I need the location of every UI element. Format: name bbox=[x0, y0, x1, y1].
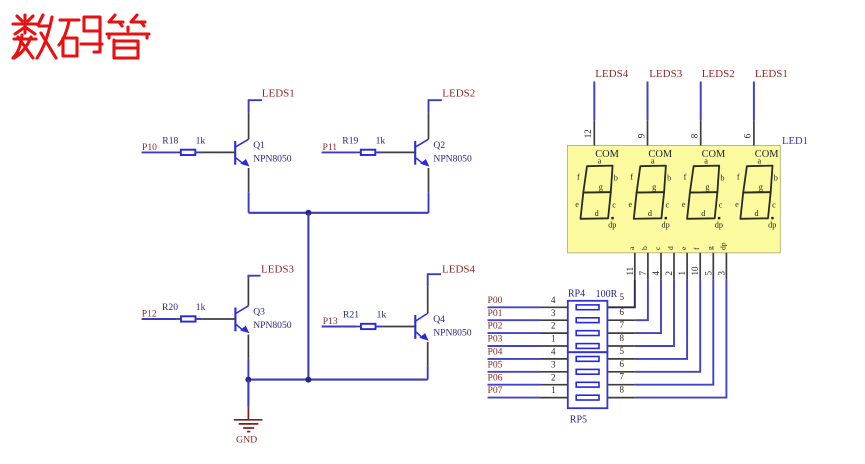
svg-text:e: e bbox=[735, 200, 739, 209]
Q4 emitter pin bbox=[427, 342, 429, 366]
svg-text:2: 2 bbox=[551, 372, 556, 382]
display LED1 body bbox=[568, 146, 781, 253]
wire emitter bus upper bbox=[249, 212, 429, 214]
svg-text:LEDS3: LEDS3 bbox=[649, 68, 683, 80]
svg-text:f: f bbox=[737, 173, 740, 182]
svg-text:1k: 1k bbox=[376, 135, 386, 146]
network resistor element row 4 bbox=[576, 344, 599, 349]
Q1 collector pin bbox=[248, 112, 250, 139]
digit 3 decimal point bbox=[718, 217, 720, 219]
svg-text:8: 8 bbox=[690, 133, 700, 138]
svg-text:LEDS4: LEDS4 bbox=[442, 263, 476, 275]
svg-text:a: a bbox=[651, 157, 655, 166]
svg-text:R20: R20 bbox=[162, 302, 178, 313]
Q4 collector pin bbox=[427, 286, 429, 313]
network resistor element row 8 bbox=[576, 395, 599, 400]
wire segment dp to network row 8 bbox=[635, 280, 727, 398]
title 数码管 bbox=[13, 15, 149, 58]
svg-text:c: c bbox=[666, 200, 670, 209]
svg-text:GND: GND bbox=[236, 435, 257, 446]
network resistor element row 2 bbox=[576, 318, 599, 323]
svg-text:P05: P05 bbox=[488, 359, 503, 370]
junction upper bus bbox=[305, 210, 311, 216]
wire to ground bbox=[247, 380, 249, 407]
wire R20 to base bbox=[196, 318, 203, 320]
transistor Q2 bbox=[415, 139, 429, 166]
svg-text:LEDS2: LEDS2 bbox=[442, 88, 475, 100]
network resistor element row 7 bbox=[576, 382, 599, 387]
junction lower bus mid bbox=[305, 377, 311, 383]
svg-text:5: 5 bbox=[620, 346, 625, 356]
wire segment f to network row 6 bbox=[635, 280, 700, 372]
svg-text:b: b bbox=[614, 173, 618, 182]
digit 2 decimal point bbox=[665, 217, 667, 219]
svg-text:R21: R21 bbox=[343, 310, 359, 321]
svg-text:LEDS3: LEDS3 bbox=[261, 263, 295, 275]
svg-text:e: e bbox=[629, 200, 633, 209]
svg-text:8: 8 bbox=[620, 333, 625, 343]
wire segment c to network row 3 bbox=[635, 280, 661, 333]
svg-text:dp: dp bbox=[608, 221, 616, 230]
display pin 11 stub bbox=[634, 253, 636, 280]
wire segment d to network row 4 bbox=[635, 280, 674, 346]
display pin 10 stub bbox=[699, 253, 701, 280]
Q3 collector wire to LEDS bbox=[248, 276, 260, 279]
svg-text:P11: P11 bbox=[323, 142, 338, 153]
svg-text:d: d bbox=[666, 246, 675, 250]
wire LEDS3 to COM bbox=[647, 82, 649, 121]
display pin 7 stub bbox=[647, 253, 649, 280]
wire P05 bbox=[488, 371, 541, 373]
Q2 emitter pin bbox=[428, 168, 430, 192]
svg-text:a: a bbox=[598, 157, 602, 166]
network resistor element row 6 bbox=[576, 369, 599, 374]
svg-text:P04: P04 bbox=[488, 347, 503, 358]
wire P12 to R20 bbox=[142, 318, 177, 320]
svg-text:P07: P07 bbox=[488, 385, 503, 396]
junction lower bus left bbox=[245, 377, 251, 383]
wire P06 bbox=[488, 384, 541, 386]
network resistor element row 3 bbox=[576, 331, 599, 336]
svg-text:f: f bbox=[684, 173, 687, 182]
wire R21 to base bbox=[376, 326, 383, 328]
digit 3 seven-segment glyph bbox=[687, 166, 719, 219]
wire R18 to base bbox=[195, 151, 202, 153]
svg-text:dp: dp bbox=[718, 242, 727, 250]
svg-text:NPN8050: NPN8050 bbox=[433, 154, 472, 165]
wire P01 bbox=[488, 319, 541, 321]
network resistor element row 5 bbox=[576, 357, 599, 362]
svg-text:1: 1 bbox=[551, 334, 556, 344]
resistor R21 1k bbox=[361, 324, 376, 329]
digit 2 segment letters bbox=[629, 157, 672, 230]
svg-text:b: b bbox=[720, 173, 724, 182]
svg-text:8: 8 bbox=[620, 385, 625, 395]
digit 1 seven-segment glyph bbox=[581, 166, 613, 219]
wire R19 to base bbox=[375, 151, 382, 153]
resistor network RP4 box bbox=[568, 301, 608, 352]
svg-text:1k: 1k bbox=[377, 310, 387, 321]
svg-text:P02: P02 bbox=[488, 321, 503, 332]
svg-text:P06: P06 bbox=[488, 372, 503, 383]
Q3 emitter wire bbox=[247, 359, 249, 380]
digit 1 decimal point bbox=[611, 217, 613, 219]
svg-text:d: d bbox=[648, 209, 652, 218]
svg-text:Q2: Q2 bbox=[433, 140, 445, 151]
svg-text:RP4: RP4 bbox=[568, 288, 585, 299]
svg-text:P10: P10 bbox=[142, 142, 157, 153]
transistor Q4 bbox=[415, 313, 428, 340]
svg-text:7: 7 bbox=[620, 372, 625, 382]
svg-text:4: 4 bbox=[551, 295, 556, 305]
svg-text:NPN8050: NPN8050 bbox=[433, 328, 472, 339]
resistor network RP5 box bbox=[568, 352, 608, 408]
display pin 5 stub bbox=[712, 253, 714, 280]
svg-text:c: c bbox=[719, 200, 723, 209]
wire P03 bbox=[488, 345, 541, 347]
svg-text:1: 1 bbox=[551, 385, 556, 395]
svg-text:Q4: Q4 bbox=[433, 314, 445, 325]
svg-text:Q1: Q1 bbox=[253, 140, 265, 151]
svg-text:6: 6 bbox=[743, 133, 753, 138]
svg-text:P01: P01 bbox=[488, 308, 503, 319]
wire vertical bus link bbox=[307, 213, 309, 380]
wire segment a to RP4 pin5 (dark) bbox=[607, 280, 634, 308]
digit 4 seven-segment glyph bbox=[740, 166, 772, 219]
ground bbox=[234, 407, 263, 432]
svg-text:LEDS4: LEDS4 bbox=[595, 68, 629, 80]
Q2 collector wire to LEDS bbox=[429, 100, 442, 112]
Q1 collector wire to LEDS bbox=[249, 100, 262, 112]
digit 1 segment letters bbox=[575, 157, 618, 230]
svg-text:b: b bbox=[640, 246, 649, 250]
COM pin 6 bbox=[753, 120, 755, 145]
svg-text:g: g bbox=[599, 183, 603, 192]
svg-text:dp: dp bbox=[662, 221, 670, 230]
resistor R18 1k bbox=[181, 150, 196, 155]
svg-text:c: c bbox=[772, 200, 776, 209]
Q3 collector pin bbox=[247, 279, 249, 306]
svg-text:d: d bbox=[595, 209, 599, 218]
network resistor element row 1 bbox=[576, 305, 599, 310]
svg-text:11: 11 bbox=[625, 267, 635, 276]
wire LEDS2 to COM bbox=[700, 82, 702, 121]
svg-text:P13: P13 bbox=[323, 316, 338, 327]
wire segment e to network row 5 bbox=[635, 280, 687, 359]
svg-text:e: e bbox=[575, 200, 579, 209]
wire LEDS1 to COM bbox=[753, 82, 755, 121]
svg-text:dp: dp bbox=[768, 221, 776, 230]
svg-text:NPN8050: NPN8050 bbox=[253, 154, 292, 165]
svg-text:b: b bbox=[667, 173, 671, 182]
svg-text:b: b bbox=[774, 173, 778, 182]
wire P07 bbox=[488, 397, 541, 399]
svg-text:e: e bbox=[682, 200, 686, 209]
svg-text:R19: R19 bbox=[342, 135, 358, 146]
resistor R20 1k bbox=[181, 316, 196, 321]
svg-text:a: a bbox=[704, 157, 708, 166]
digit 4 segment letters bbox=[735, 157, 778, 230]
display pin 4 stub bbox=[660, 253, 662, 280]
svg-text:dp: dp bbox=[715, 221, 723, 230]
svg-text:P12: P12 bbox=[142, 308, 157, 319]
transistor Q1 bbox=[235, 139, 249, 166]
wire P10 to R18 bbox=[142, 151, 177, 153]
Q3 emitter pin bbox=[247, 335, 249, 359]
svg-text:LEDS1: LEDS1 bbox=[755, 68, 788, 80]
svg-text:2: 2 bbox=[551, 321, 556, 331]
svg-text:10: 10 bbox=[690, 266, 700, 276]
svg-text:6: 6 bbox=[620, 359, 625, 369]
Q2 collector pin bbox=[428, 112, 430, 139]
transistor Q3 bbox=[235, 306, 249, 333]
Q1 emitter wire bbox=[248, 192, 250, 213]
svg-text:P00: P00 bbox=[488, 295, 503, 306]
digit 2 seven-segment glyph bbox=[634, 166, 666, 219]
svg-text:3: 3 bbox=[551, 359, 556, 369]
svg-text:f: f bbox=[630, 173, 633, 182]
svg-text:2: 2 bbox=[664, 271, 674, 276]
resistor R19 1k bbox=[361, 150, 376, 155]
svg-text:5: 5 bbox=[703, 271, 713, 276]
svg-text:NPN8050: NPN8050 bbox=[253, 320, 292, 331]
svg-text:Q3: Q3 bbox=[253, 307, 265, 318]
svg-text:1k: 1k bbox=[196, 135, 206, 146]
wire P02 bbox=[488, 332, 541, 334]
display pin 1 stub bbox=[686, 253, 688, 280]
svg-text:1k: 1k bbox=[196, 302, 206, 313]
svg-text:7: 7 bbox=[620, 320, 625, 330]
wire LEDS4 to COM bbox=[593, 82, 595, 121]
display pin 3 stub bbox=[725, 253, 727, 280]
Q4 collector wire to LEDS bbox=[428, 274, 441, 286]
svg-text:d: d bbox=[755, 209, 759, 218]
svg-text:9: 9 bbox=[636, 133, 646, 138]
svg-text:4: 4 bbox=[651, 271, 661, 276]
svg-text:5: 5 bbox=[620, 292, 625, 302]
svg-text:g: g bbox=[705, 246, 714, 250]
svg-text:1: 1 bbox=[677, 271, 687, 276]
svg-text:g: g bbox=[759, 183, 763, 192]
svg-text:100R: 100R bbox=[596, 289, 618, 300]
svg-text:LED1: LED1 bbox=[782, 136, 808, 147]
svg-text:7: 7 bbox=[638, 271, 648, 276]
display pin 2 stub bbox=[673, 253, 675, 280]
svg-text:a: a bbox=[758, 157, 762, 166]
COM pin 8 bbox=[700, 120, 702, 145]
svg-text:LEDS1: LEDS1 bbox=[262, 88, 295, 100]
svg-text:6: 6 bbox=[620, 307, 625, 317]
wire P04 bbox=[488, 358, 541, 360]
svg-text:12: 12 bbox=[583, 129, 593, 138]
COM pin 12 bbox=[593, 120, 595, 145]
svg-text:d: d bbox=[701, 209, 705, 218]
COM pin 9 bbox=[647, 120, 649, 145]
digit 4 decimal point bbox=[771, 217, 773, 219]
svg-text:g: g bbox=[652, 183, 656, 192]
svg-text:RP5: RP5 bbox=[570, 414, 587, 425]
svg-text:4: 4 bbox=[551, 347, 556, 357]
wire segment b to network row 2 bbox=[635, 280, 648, 320]
digit 3 segment letters bbox=[682, 157, 725, 230]
wire emitter bus lower bbox=[248, 379, 427, 381]
svg-text:R18: R18 bbox=[162, 135, 178, 146]
svg-text:g: g bbox=[705, 183, 709, 192]
Q2 emitter wire bbox=[428, 192, 430, 213]
wire P00 bbox=[488, 306, 541, 308]
svg-text:3: 3 bbox=[716, 271, 726, 276]
wire segment g to network row 7 bbox=[635, 280, 714, 385]
wire P11 to R19 bbox=[322, 151, 357, 153]
svg-text:3: 3 bbox=[551, 308, 556, 318]
svg-text:LEDS2: LEDS2 bbox=[702, 68, 735, 80]
svg-text:f: f bbox=[577, 173, 580, 182]
Q1 emitter pin bbox=[248, 168, 250, 192]
svg-text:c: c bbox=[612, 200, 616, 209]
wire P13 to R21 bbox=[322, 326, 357, 328]
Q4 emitter wire bbox=[427, 366, 429, 379]
svg-text:P03: P03 bbox=[488, 334, 503, 345]
